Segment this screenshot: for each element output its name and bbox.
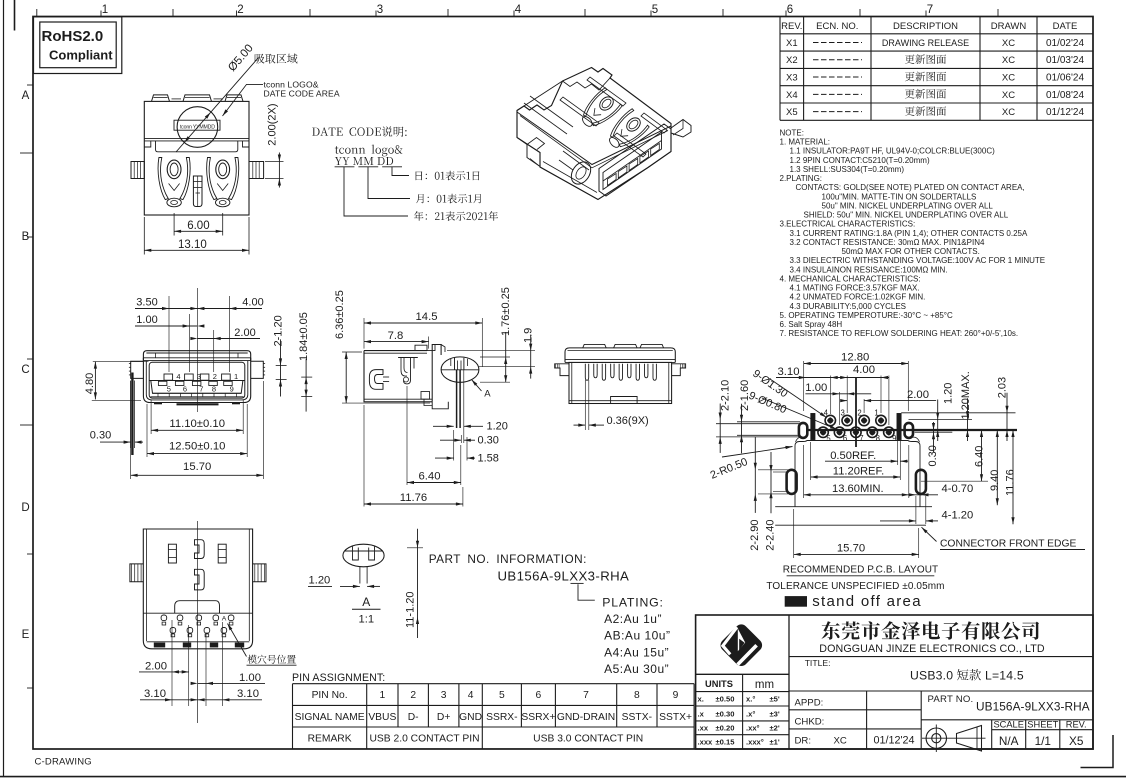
svg-text:TITLE:: TITLE:: [805, 658, 831, 668]
svg-text:6: 6: [843, 434, 847, 443]
front view bottom dimensions: [150, 400, 152, 434]
svg-text:Compliant: Compliant: [49, 48, 113, 63]
svg-text:GND-DRAIN: GND-DRAIN: [557, 712, 615, 723]
title block company and part no: [822, 621, 1040, 640]
svg-text:stand off area: stand off area: [812, 593, 922, 610]
svg-text:7: 7: [583, 690, 589, 701]
svg-text:±0.50: ±0.50: [716, 695, 735, 704]
dimension 0.36 9X: [584, 380, 586, 430]
dimensions 2-2.10 2-1.60: [719, 404, 721, 453]
svg-text:X5: X5: [786, 107, 798, 118]
svg-text:7. RESISTANCE TO REFLOW SO: 7. RESISTANCE TO REFLOW SOLDERING HEAT: …: [780, 329, 1019, 338]
svg-text:GND: GND: [459, 712, 482, 723]
svg-text:REMARK: REMARK: [308, 734, 352, 745]
svg-text:7: 7: [199, 385, 203, 394]
svg-text:1.2 9PIN CONTACT:C5210(T=0.2: 1.2 9PIN CONTACT:C5210(T=0.20mm): [790, 156, 930, 165]
svg-text:8: 8: [634, 690, 640, 701]
dimension 1.58: [466, 437, 468, 461]
RoHS compliance box: [34, 17, 122, 74]
svg-text:2.00: 2.00: [234, 327, 255, 339]
svg-text:50u" MIN. NICKEL UNDERPLATI: 50u" MIN. NICKEL UNDERPLATING OVER ALL: [822, 201, 994, 210]
svg-text:A: A: [22, 90, 30, 102]
svg-text:XC: XC: [1002, 55, 1015, 66]
svg-text:4.2 UNMATED FORCE:1.02KGF M: 4.2 UNMATED FORCE:1.02KGF MIN.: [790, 293, 926, 302]
dimension 1.84+-0.05: [301, 376, 312, 378]
svg-text:3.10: 3.10: [144, 688, 166, 700]
svg-text:3.4 INSULAINON RESISANCE:100: 3.4 INSULAINON RESISANCE:100MΩ MIN.: [790, 265, 948, 274]
svg-text:.x°: .x°: [746, 709, 755, 718]
svg-text:0.30: 0.30: [90, 429, 111, 441]
svg-text:NOTE:: NOTE:: [780, 129, 804, 138]
svg-text:XC: XC: [834, 735, 847, 746]
svg-text:7: 7: [927, 4, 933, 16]
front view of connector: [143, 351, 250, 361]
svg-text:1.00: 1.00: [136, 314, 157, 326]
svg-text:DATE: DATE: [1053, 21, 1078, 32]
svg-text:5. OPERATING TEMPEROTURE:-30: 5. OPERATING TEMPEROTURE:-30°C ~ +85°C: [780, 311, 953, 320]
svg-text:01/08'24: 01/08'24: [1046, 90, 1084, 101]
svg-text:TOLERANCE UNSPECIFIED ±0.05m: TOLERANCE UNSPECIFIED ±0.05mm: [766, 581, 944, 592]
dimensions 2-2.90 2-2.40: [754, 437, 756, 513]
svg-text:CONTACTS: GOLD(SEE NOTE) PL: CONTACTS: GOLD(SEE NOTE) PLATED ON CONTA…: [796, 183, 1025, 192]
svg-text:SHEET: SHEET: [1027, 720, 1058, 730]
svg-text:1: 1: [874, 409, 878, 418]
dimension 0.30 front: [131, 373, 133, 456]
svg-text:6: 6: [787, 4, 793, 16]
svg-text:C-DRAWING: C-DRAWING: [35, 757, 92, 768]
svg-text:2-2.10: 2-2.10: [720, 380, 732, 411]
svg-text:12.50±0.10: 12.50±0.10: [169, 441, 225, 453]
svg-text:DATE CODE AREA: DATE CODE AREA: [264, 89, 340, 99]
svg-text:SHIELD: 50u" MIN. NICKEL U: SHIELD: 50u" MIN. NICKEL UNDERPLATING OV…: [804, 211, 1009, 220]
dimension 2.00 pcb: [863, 399, 865, 413]
svg-text:4. MECHANICAL CHARACTERISTIC: 4. MECHANICAL CHARACTERISTICS:: [780, 274, 921, 283]
svg-text:13.10: 13.10: [178, 239, 207, 251]
svg-text:01/06'24: 01/06'24: [1046, 72, 1084, 83]
dimension 1.76+-0.25: [480, 356, 510, 358]
svg-text:5: 5: [167, 385, 171, 394]
svg-text:0.36(9X): 0.36(9X): [607, 415, 649, 427]
svg-text:2.00(2X): 2.00(2X): [267, 103, 279, 145]
svg-text:5: 5: [499, 690, 505, 701]
svg-text:2: 2: [857, 409, 861, 418]
svg-text:9.40: 9.40: [989, 470, 1001, 491]
svg-text:01/03'24: 01/03'24: [1046, 55, 1084, 66]
svg-text:.xx: .xx: [698, 724, 709, 733]
dimension 1.9: [447, 350, 535, 352]
dimension 6.00: [173, 213, 175, 236]
svg-text:9: 9: [230, 385, 234, 394]
svg-text:11.76: 11.76: [1004, 469, 1016, 496]
svg-text:AB:Au 10u”: AB:Au 10u”: [604, 629, 670, 643]
svg-text:4-1.20: 4-1.20: [942, 509, 974, 521]
svg-text:1.20MAX.: 1.20MAX.: [960, 371, 972, 419]
svg-text:X5: X5: [1069, 734, 1084, 748]
detail A labels: [340, 585, 360, 587]
svg-text:±0.15: ±0.15: [716, 738, 736, 747]
svg-text:PART NO.: PART NO.: [928, 694, 974, 705]
svg-text:4: 4: [515, 4, 522, 16]
svg-text:3.10: 3.10: [237, 688, 259, 700]
label mold cavity position: [248, 655, 296, 664]
detail A view: [343, 544, 384, 567]
svg-text:8: 8: [212, 385, 216, 394]
svg-text:X1: X1: [786, 38, 798, 49]
svg-text:4.3 DURABILITY:5,000 CYCLES: 4.3 DURABILITY:5,000 CYCLES: [790, 302, 907, 311]
svg-text:USB 3.0 CONTACT PIN: USB 3.0 CONTACT PIN: [533, 734, 643, 745]
svg-text:6.40: 6.40: [973, 446, 985, 467]
dimensions 3.10 and 4.00: [830, 376, 832, 415]
title block scale sheet rev: [991, 720, 993, 749]
svg-text:UB156A-9LXX3-RHA: UB156A-9LXX3-RHA: [498, 568, 630, 583]
svg-text:1.00: 1.00: [805, 382, 827, 394]
svg-text:1: 1: [102, 4, 108, 16]
svg-text:5: 5: [652, 4, 658, 16]
isometric view of connector: [517, 68, 671, 200]
svg-text:4: 4: [176, 372, 180, 381]
bottom view of connector: [143, 529, 252, 649]
svg-text:SCALE: SCALE: [993, 720, 1024, 730]
svg-text:XC: XC: [1002, 72, 1015, 83]
svg-text:PIN ASSIGNMENT:: PIN ASSIGNMENT:: [292, 672, 385, 684]
svg-text:9: 9: [892, 434, 896, 443]
pcb pads pattern: [855, 378, 857, 448]
svg-text:A5:Au 30u”: A5:Au 30u”: [604, 662, 669, 676]
svg-text:.x: .x: [698, 709, 705, 718]
svg-text:L=14.5: L=14.5: [985, 669, 1024, 683]
svg-text:3.50: 3.50: [136, 296, 157, 308]
date code legend: [312, 126, 407, 136]
svg-text:D-: D-: [408, 712, 419, 723]
dimensions 6.40 9.40 11.76 pcb: [921, 480, 988, 482]
svg-text:SSTX-: SSTX-: [622, 712, 652, 723]
svg-text:2: 2: [213, 372, 217, 381]
svg-text:XC: XC: [1002, 90, 1015, 101]
svg-text:6: 6: [536, 690, 542, 701]
svg-text:C: C: [21, 364, 29, 376]
svg-text:1.1 INSULATOR:PA9T HF, UL94: 1.1 INSULATOR:PA9T HF, UL94V-0;COLCR:BLU…: [790, 147, 996, 156]
dimension 2-1.20: [276, 364, 287, 366]
svg-text:11.20REF.: 11.20REF.: [833, 466, 884, 478]
svg-text:ECN. NO.: ECN. NO.: [816, 21, 858, 32]
svg-text:9: 9: [673, 690, 679, 701]
dimensions 4-0.70 4-1.20: [909, 494, 938, 496]
svg-text:8: 8: [876, 434, 880, 443]
svg-text:0.30: 0.30: [478, 435, 499, 447]
svg-text:SIGNAL NAME: SIGNAL NAME: [295, 712, 365, 723]
svg-text:A: A: [362, 595, 370, 609]
svg-text:2-1.60: 2-1.60: [739, 380, 751, 411]
svg-text:1: 1: [234, 372, 238, 381]
svg-text:XC: XC: [1002, 38, 1015, 49]
svg-text:±3': ±3': [770, 709, 780, 718]
leader 2-R0.50: [722, 447, 793, 458]
svg-text:50mΩ MAX FOR OTHER CONTACT: 50mΩ MAX FOR OTHER CONTACTS.: [842, 247, 980, 256]
svg-text:3.10: 3.10: [778, 366, 800, 378]
dimension 13.60MIN: [803, 445, 805, 498]
svg-text:.xxx: .xxx: [698, 738, 714, 747]
label connector front edge: [922, 527, 937, 541]
svg-text:CONNECTOR FRONT EDGE: CONNECTOR FRONT EDGE: [940, 539, 1076, 550]
svg-text:4-0.70: 4-0.70: [942, 483, 974, 495]
dimension 6.36+-0.25: [342, 351, 362, 353]
svg-text:X4: X4: [786, 90, 798, 101]
top view of connector: [144, 101, 249, 215]
svg-text:D+: D+: [437, 712, 450, 723]
svg-text:1.20: 1.20: [942, 383, 954, 404]
svg-text:2-1.20: 2-1.20: [273, 315, 285, 346]
svg-text:1: 1: [379, 690, 385, 701]
svg-text:15.70: 15.70: [837, 542, 865, 554]
dimensions 0.50REF 11.20REF: [897, 441, 899, 465]
svg-text:3: 3: [441, 690, 447, 701]
svg-text:.xxx°: .xxx°: [746, 738, 764, 747]
svg-text:2.00: 2.00: [907, 389, 929, 401]
svg-text:XC: XC: [1002, 107, 1015, 118]
dimension 1.00 pcb: [839, 392, 841, 425]
svg-text:4.00: 4.00: [242, 296, 263, 308]
svg-text:USB3.0: USB3.0: [910, 669, 953, 683]
svg-text:±2': ±2': [770, 724, 780, 733]
svg-text:2-2.40: 2-2.40: [765, 519, 777, 550]
svg-text:x.: x.: [698, 695, 704, 704]
corner crop mark: [1081, 735, 1114, 768]
svg-text:RECOMMENDED P.C.B. LAYOUT: RECOMMENDED P.C.B. LAYOUT: [783, 565, 939, 576]
connector outline on pcb: [795, 441, 920, 507]
svg-text:3.ELECTRICAL CHARACTERISTICS:: 3.ELECTRICAL CHARACTERISTICS:: [780, 220, 916, 229]
svg-text:6. Salt Spray 48H: 6. Salt Spray 48H: [780, 320, 843, 329]
svg-text:SSRX+: SSRX+: [521, 712, 555, 723]
svg-text:E: E: [22, 629, 30, 641]
svg-text:REV.: REV.: [781, 21, 802, 32]
svg-text:01/02'24: 01/02'24: [1046, 38, 1084, 49]
svg-text:1.58: 1.58: [478, 452, 499, 464]
svg-text:1.3 SHELL:SUS304(T=0.20mm): 1.3 SHELL:SUS304(T=0.20mm): [790, 165, 905, 174]
svg-text:DESCRIPTION: DESCRIPTION: [893, 21, 958, 32]
svg-text:1.9: 1.9: [523, 328, 535, 343]
svg-text:14.5: 14.5: [416, 311, 438, 323]
svg-text:11-1.20: 11-1.20: [405, 592, 417, 629]
svg-text:APPD:: APPD:: [795, 697, 824, 708]
svg-text:1.84±0.05: 1.84±0.05: [298, 312, 310, 361]
svg-text:A2:Au 1u”: A2:Au 1u”: [604, 612, 662, 626]
svg-text:A: A: [222, 616, 227, 623]
svg-text:1. MATERIAL:: 1. MATERIAL:: [780, 138, 831, 147]
svg-text:2-2.90: 2-2.90: [749, 519, 761, 550]
svg-text:0.50REF.: 0.50REF.: [830, 450, 876, 462]
bottom view dimensions: [171, 620, 173, 706]
svg-text:1:1: 1:1: [359, 614, 375, 626]
svg-text:1.00: 1.00: [239, 672, 261, 684]
svg-text:4: 4: [468, 690, 474, 701]
svg-text:±1': ±1': [770, 738, 780, 747]
sheet edge lines: [3, 0, 5, 777]
dimension 0.30 side: [460, 435, 462, 443]
revision table: [780, 16, 1093, 18]
svg-text:x.°: x.°: [746, 695, 755, 704]
svg-text:USB 2.0 CONTACT PIN: USB 2.0 CONTACT PIN: [369, 734, 479, 745]
svg-text:12.80: 12.80: [841, 352, 869, 364]
svg-text:2.PLATING:: 2.PLATING:: [780, 174, 823, 183]
stand off area legend: [785, 597, 806, 607]
svg-text:PLATING:: PLATING:: [602, 595, 664, 609]
svg-text:±5': ±5': [770, 695, 780, 704]
svg-text:2.00: 2.00: [145, 660, 167, 672]
svg-text:±0.20: ±0.20: [716, 724, 735, 733]
svg-text:7.8: 7.8: [388, 330, 404, 342]
svg-text:PIN No.: PIN No.: [312, 690, 348, 701]
svg-text:DRAWN: DRAWN: [991, 21, 1027, 32]
svg-text:6.36±0.25: 6.36±0.25: [334, 290, 346, 339]
svg-text:UB156A-9LXX3-RHA: UB156A-9LXX3-RHA: [976, 700, 1090, 714]
svg-text:7: 7: [859, 434, 863, 443]
svg-text:13.60MIN.: 13.60MIN.: [832, 483, 884, 495]
leader dia 5.00: [176, 58, 259, 153]
dimension 11-1.20: [407, 547, 423, 549]
svg-text:3: 3: [377, 4, 383, 16]
dimensions 0.30 1.20 1.20MAX 2.03: [901, 412, 1015, 414]
svg-text:SSRX-: SSRX-: [486, 712, 517, 723]
side view of connector: [364, 351, 432, 402]
front view top dimensions: [168, 296, 170, 372]
dimension 13.10: [143, 217, 145, 255]
svg-text:01/12'24: 01/12'24: [1046, 107, 1084, 118]
svg-text:mm: mm: [755, 679, 774, 691]
svg-text:D: D: [21, 502, 29, 514]
svg-text:100u"MIN. MATTE-TIN ON SO: 100u"MIN. MATTE-TIN ON SOLDERTALLS: [822, 192, 977, 201]
leaders 9-dia1.30 9-dia0.80: [770, 379, 827, 418]
svg-text:3.3 DIELECTRIC WITHSTANDING: 3.3 DIELECTRIC WITHSTANDING VOLTAGE:100V…: [790, 256, 1046, 265]
svg-text:2: 2: [410, 690, 416, 701]
svg-text:5: 5: [826, 434, 831, 443]
svg-text:UNITS: UNITS: [705, 679, 733, 689]
dimension 2.00(2X): [265, 161, 284, 163]
svg-text:X2: X2: [786, 55, 798, 66]
svg-text:11.76: 11.76: [400, 492, 427, 504]
svg-text:11.10±0.10: 11.10±0.10: [169, 418, 225, 430]
svg-text:1/1: 1/1: [1035, 734, 1051, 748]
leader detail A: [472, 380, 482, 392]
svg-text:6.40: 6.40: [419, 470, 441, 482]
svg-text:1.76±0.25: 1.76±0.25: [500, 287, 512, 336]
svg-text:15.70: 15.70: [183, 461, 211, 473]
svg-text:2: 2: [237, 4, 243, 16]
svg-text:4.80: 4.80: [84, 373, 96, 394]
svg-text:±0.30: ±0.30: [716, 709, 735, 718]
svg-text:6: 6: [183, 385, 187, 394]
dimension 12.80: [803, 361, 805, 411]
svg-text:3: 3: [841, 409, 845, 418]
svg-text:2.03: 2.03: [997, 377, 1009, 398]
svg-text:4.1 MATING FORCE:3.57KGF MA: 4.1 MATING FORCE:3.57KGF MAX.: [790, 284, 920, 293]
svg-text:N/A: N/A: [999, 734, 1019, 748]
svg-text:DR:: DR:: [795, 735, 812, 746]
svg-text:A: A: [484, 388, 491, 399]
svg-text:SSTX+: SSTX+: [659, 712, 692, 723]
svg-text:1.20: 1.20: [309, 574, 331, 586]
dimension 1.20 side: [463, 370, 465, 443]
svg-text:RoHS2.0: RoHS2.0: [42, 28, 104, 45]
title block left and logo: [696, 615, 1093, 749]
svg-text:DRAWING RELEASE: DRAWING RELEASE: [882, 38, 969, 48]
svg-text:01/12'24: 01/12'24: [873, 735, 914, 747]
svg-text:X3: X3: [786, 72, 798, 83]
dimensions 14.5 and 7.8: [363, 318, 365, 349]
svg-text:REV.: REV.: [1066, 720, 1087, 730]
svg-text:.xx°: .xx°: [746, 724, 760, 733]
svg-text:4.00: 4.00: [853, 364, 875, 376]
svg-text:6.00: 6.00: [187, 220, 209, 232]
rear view of connector: [565, 348, 675, 363]
label suction area (chinese): [255, 54, 298, 64]
svg-text:DONGGUAN JINZE ELECTRONICS: DONGGUAN JINZE ELECTRONICS CO., LTD: [819, 643, 1045, 655]
svg-text:VBUS: VBUS: [368, 712, 396, 723]
svg-text:1.20: 1.20: [487, 421, 508, 433]
dimensions 6.40 and 11.76: [406, 386, 408, 485]
svg-text:0.30: 0.30: [927, 445, 939, 466]
svg-text:PART NO. INFORMATION:: PART NO. INFORMATION:: [429, 552, 587, 566]
svg-text:CHKD:: CHKD:: [795, 716, 825, 727]
svg-text:3.1 CURRENT RATING:1.8A (PI: 3.1 CURRENT RATING:1.8A (PIN 1,4); OTHER…: [790, 229, 1028, 238]
label tconn logo and date code area: [223, 84, 264, 116]
svg-text:3.2 CONTACT RESISTANCE: 30m: 3.2 CONTACT RESISTANCE: 30mΩ MAX. PIN1&P…: [790, 238, 985, 247]
dimension 15.70 pcb: [793, 509, 795, 558]
svg-text:A4:Au 15u”: A4:Au 15u”: [604, 645, 669, 659]
